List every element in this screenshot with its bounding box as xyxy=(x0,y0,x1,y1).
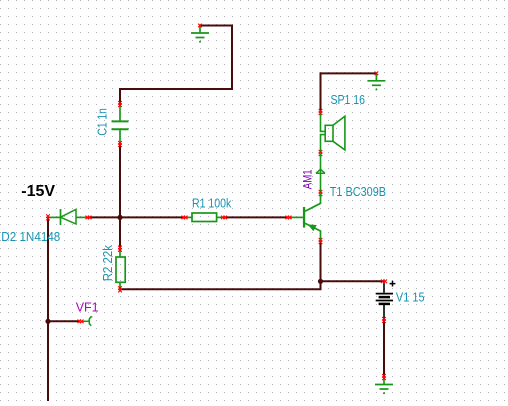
ground right xyxy=(367,73,385,89)
ground bottom xyxy=(375,377,393,393)
svg-text:VF1: VF1 xyxy=(76,301,99,315)
pin ground top xyxy=(198,24,202,28)
pin VF1 xyxy=(78,320,84,324)
svg-text:R1 100k: R1 100k xyxy=(192,197,232,211)
pin ground bottom xyxy=(382,374,386,380)
svg-text:-15V: -15V xyxy=(21,183,55,200)
ammeter AM1 xyxy=(316,153,325,193)
pin R2 bottom xyxy=(118,286,122,292)
svg-text:C1 1n: C1 1n xyxy=(96,108,110,136)
pin T1 base xyxy=(286,216,292,220)
wire R1 right to T1 base xyxy=(225,216,289,218)
svg-text:R2 22k: R2 22k xyxy=(101,244,115,281)
pin C1 top xyxy=(118,101,122,107)
ground top xyxy=(191,26,209,42)
pin SP1 top xyxy=(319,109,323,115)
pin V1 plus xyxy=(381,280,387,284)
wire node C to battery plus xyxy=(320,280,385,282)
wire along bottom to R2 bottom xyxy=(120,288,322,290)
voltage probe VF1 xyxy=(82,317,92,326)
junction node B xyxy=(45,319,50,324)
wire node C jog down xyxy=(320,280,322,289)
junction node C xyxy=(318,279,323,284)
wire T1 emitter to node C xyxy=(320,241,322,281)
wire corner down to speaker top xyxy=(320,72,322,112)
resistor R1 xyxy=(184,213,225,222)
svg-text:T1 BC309B: T1 BC309B xyxy=(330,185,386,199)
pin AM1 bottom / T1 collector xyxy=(319,190,323,196)
junction node A xyxy=(117,215,122,220)
wire from top ground to corner xyxy=(199,25,233,27)
svg-text:D2 1N4148: D2 1N4148 xyxy=(1,230,60,244)
capacitor C1 xyxy=(112,104,129,144)
pin C1 bottom xyxy=(118,141,122,147)
pin R2 top xyxy=(118,246,122,252)
wire right vertical drop xyxy=(231,25,233,91)
pin D2 right xyxy=(86,216,92,220)
svg-text:AM1: AM1 xyxy=(301,169,315,189)
pin T1 emitter xyxy=(319,238,323,244)
pin D2 anode left xyxy=(46,214,50,220)
wire C1 bottom to node A xyxy=(119,144,121,217)
diode D2 xyxy=(48,209,89,225)
resistor R2 xyxy=(116,249,125,290)
svg-text:SP1 16: SP1 16 xyxy=(331,93,366,107)
svg-text:V1 15: V1 15 xyxy=(396,291,425,305)
pin R1 left xyxy=(182,216,188,220)
pin R1 right xyxy=(221,216,227,220)
battery plus sign xyxy=(390,281,396,287)
speaker SP1 xyxy=(321,112,345,153)
wire horizontal to capacitor column xyxy=(119,88,233,90)
wire diode cathode side to node A xyxy=(89,216,121,218)
pin ground right xyxy=(375,72,379,76)
wire node A to R1 left xyxy=(119,216,184,218)
transistor T1 xyxy=(289,193,321,241)
wire right ground to corner above speaker xyxy=(320,72,378,74)
pin V1 minus xyxy=(382,317,386,323)
wire node B to VF1 probe xyxy=(48,320,80,322)
wire node A down to R2 top xyxy=(119,216,121,249)
pin SP1 bottom xyxy=(319,150,323,156)
wire left rail down from diode anode xyxy=(47,217,49,401)
wire down to C1 top pin xyxy=(119,88,121,104)
wire battery minus to bottom ground xyxy=(383,320,385,377)
battery V1 xyxy=(376,281,393,320)
